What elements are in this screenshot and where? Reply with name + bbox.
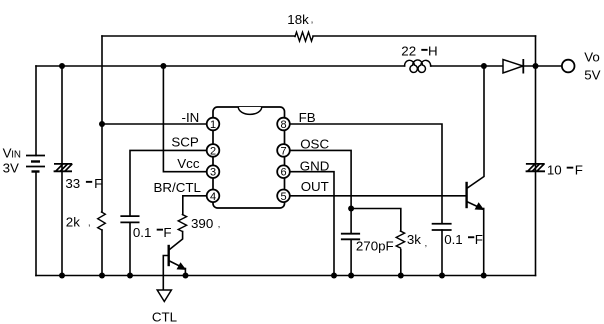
svg-text:,: , xyxy=(311,15,314,25)
svg-text:GND: GND xyxy=(300,158,330,173)
node dot rail Q1 emitter xyxy=(183,273,189,279)
svg-text:Vcc: Vcc xyxy=(177,156,200,171)
node dot VIN rail Vcc xyxy=(160,63,166,69)
node dot VIN rail 33uF xyxy=(59,63,65,69)
pin 5 xyxy=(277,190,290,203)
svg-text:7: 7 xyxy=(280,145,286,157)
pin 1 xyxy=(207,118,220,131)
wire top feedback rail right segment xyxy=(313,35,536,37)
wire ground bottom rail xyxy=(36,275,536,277)
svg-text:0.1: 0.1 xyxy=(444,232,463,247)
svg-text:1: 1 xyxy=(210,119,216,131)
resistor 3k xyxy=(396,231,404,248)
capacitor C 10uF electrolytic xyxy=(526,164,545,171)
wire GND pin6 xyxy=(289,172,334,276)
node dot rail 2k xyxy=(99,273,105,279)
inductor L1 22uH xyxy=(405,60,431,72)
terminal Vo output circle xyxy=(562,60,575,73)
svg-text:F: F xyxy=(163,225,171,240)
resistor 390 xyxy=(178,215,186,232)
svg-text:8: 8 xyxy=(280,119,286,131)
wire -IN pin1 xyxy=(102,123,207,125)
node dot diode output xyxy=(533,63,539,69)
wire Vcc pin3 xyxy=(163,66,207,172)
svg-text:2k: 2k xyxy=(66,215,80,230)
wire Q2 emitter to ground rail xyxy=(483,209,485,276)
pin 4 xyxy=(207,190,220,203)
svg-text:OSC: OSC xyxy=(300,137,329,152)
node dot rail 0.1uF right xyxy=(439,273,445,279)
wire 2k branch lower xyxy=(101,230,103,276)
svg-text:,: , xyxy=(218,219,221,229)
transistor Q1 base bar xyxy=(167,246,169,265)
svg-text:270pF: 270pF xyxy=(356,239,394,254)
wire Q1 emitter to ground rail xyxy=(184,269,186,276)
wire inductor to diode xyxy=(431,65,503,67)
wire 0.1uF left lower lead xyxy=(129,222,131,275)
svg-text:5V: 5V xyxy=(584,67,600,82)
transistor Q2 base bar xyxy=(465,183,467,207)
svg-text:6: 6 xyxy=(280,167,286,179)
label 22uH xyxy=(401,43,437,58)
label 10uF xyxy=(547,162,583,177)
svg-text:0.1: 0.1 xyxy=(133,225,152,240)
wire OUT pin5 to Q2 base xyxy=(289,195,466,197)
terminal CTL arrow xyxy=(157,290,171,302)
capacitor C 0.1uF left plates xyxy=(121,216,138,222)
label 33uF xyxy=(65,176,102,191)
label 390 xyxy=(191,216,220,231)
wire 33uF branch xyxy=(61,66,63,276)
svg-text:F: F xyxy=(94,176,102,191)
svg-text:5: 5 xyxy=(280,191,286,203)
pin 7 xyxy=(277,144,290,157)
node dot OSC 270pF 3k xyxy=(348,206,354,212)
resistor 2k xyxy=(98,212,106,230)
svg-text:2: 2 xyxy=(210,145,216,157)
svg-text:3k: 3k xyxy=(407,232,421,247)
transistor Q2 collector xyxy=(467,66,484,189)
label 0.1uF right xyxy=(444,232,483,247)
capacitor C 270pF plates xyxy=(342,234,359,240)
svg-text:10: 10 xyxy=(547,162,562,177)
label VIN xyxy=(3,146,21,161)
wire Q1 base to CTL stub xyxy=(163,256,168,291)
label 2k xyxy=(66,215,91,230)
label 0.1uF left xyxy=(133,225,172,240)
pin 2 xyxy=(207,144,220,157)
svg-text:F: F xyxy=(475,232,483,247)
wire 390 to Q1 collector xyxy=(170,232,183,250)
wire SCP pin2 xyxy=(130,150,207,216)
svg-text:IN: IN xyxy=(11,150,21,161)
resistor 18k xyxy=(295,32,313,41)
svg-text:4: 4 xyxy=(210,191,216,203)
svg-text:CTL: CTL xyxy=(152,309,177,324)
transistor Q1 emitter arrowhead xyxy=(177,262,187,270)
transistor Q2 emitter xyxy=(467,202,484,210)
IC notch xyxy=(238,107,261,114)
wire 18k rail left drop to -IN node xyxy=(101,36,103,124)
transistor Q2 emitter arrowhead xyxy=(475,202,485,210)
wire battery bottom lead xyxy=(35,172,37,276)
battery B1 VIN 3V xyxy=(26,156,45,172)
pin 3 xyxy=(207,165,220,178)
wire FB pin8 xyxy=(289,124,442,224)
op-amp U1 IC body xyxy=(213,107,285,208)
wire output right vertical xyxy=(535,36,537,276)
diode D1 xyxy=(503,60,523,74)
svg-text:3: 3 xyxy=(210,167,216,179)
wire 2k branch upper xyxy=(101,124,103,212)
wire 270pF lower lead xyxy=(350,239,352,275)
wire top feedback rail left segment xyxy=(102,35,295,37)
label 3k xyxy=(407,232,427,248)
wire battery top lead xyxy=(35,66,37,156)
node dot rail Q2 emitter xyxy=(481,273,487,279)
wire diode cathode to Vo xyxy=(523,65,562,67)
svg-text:BR/CTL: BR/CTL xyxy=(153,180,200,195)
node dot rail 0.1uF left xyxy=(127,273,133,279)
node dot rail GND pin xyxy=(331,273,337,279)
label 18k xyxy=(287,12,313,27)
svg-text:33: 33 xyxy=(65,176,80,191)
node dot rail 33uF xyxy=(59,273,65,279)
node dot diode Q2 collector xyxy=(481,63,487,69)
wire BR/CTL pin4 to 390 xyxy=(183,196,207,215)
wire 3k lower lead xyxy=(400,249,402,275)
capacitor C 0.1uF right plates xyxy=(433,224,451,230)
svg-text:22: 22 xyxy=(401,43,416,58)
svg-text:SCP: SCP xyxy=(171,134,199,149)
svg-text:FB: FB xyxy=(299,110,316,125)
node dot -IN 18k xyxy=(99,121,105,127)
pin 6 xyxy=(277,165,290,178)
svg-text:H: H xyxy=(428,43,438,58)
transistor Q1 emitter xyxy=(170,261,186,269)
svg-text:3V: 3V xyxy=(3,161,19,176)
wire 0.1uF right lower lead xyxy=(441,230,443,276)
svg-text:18k: 18k xyxy=(287,12,309,27)
svg-text:390: 390 xyxy=(191,216,213,231)
svg-text:,: , xyxy=(425,238,428,248)
node dot rail 3k xyxy=(398,273,404,279)
pin 8 xyxy=(277,118,290,131)
wire OSC pin7 xyxy=(289,150,351,233)
svg-text:-IN: -IN xyxy=(182,110,200,125)
node dot rail 270pF xyxy=(348,273,354,279)
wire VIN rail segment battery to inductor xyxy=(36,65,405,67)
capacitor C 33uF electrolytic xyxy=(54,164,73,171)
svg-text:Vo: Vo xyxy=(584,50,600,65)
svg-text:F: F xyxy=(575,162,583,177)
svg-text:,: , xyxy=(88,218,91,228)
wire OSC node to 3k xyxy=(351,209,401,232)
svg-text:OUT: OUT xyxy=(301,179,329,194)
